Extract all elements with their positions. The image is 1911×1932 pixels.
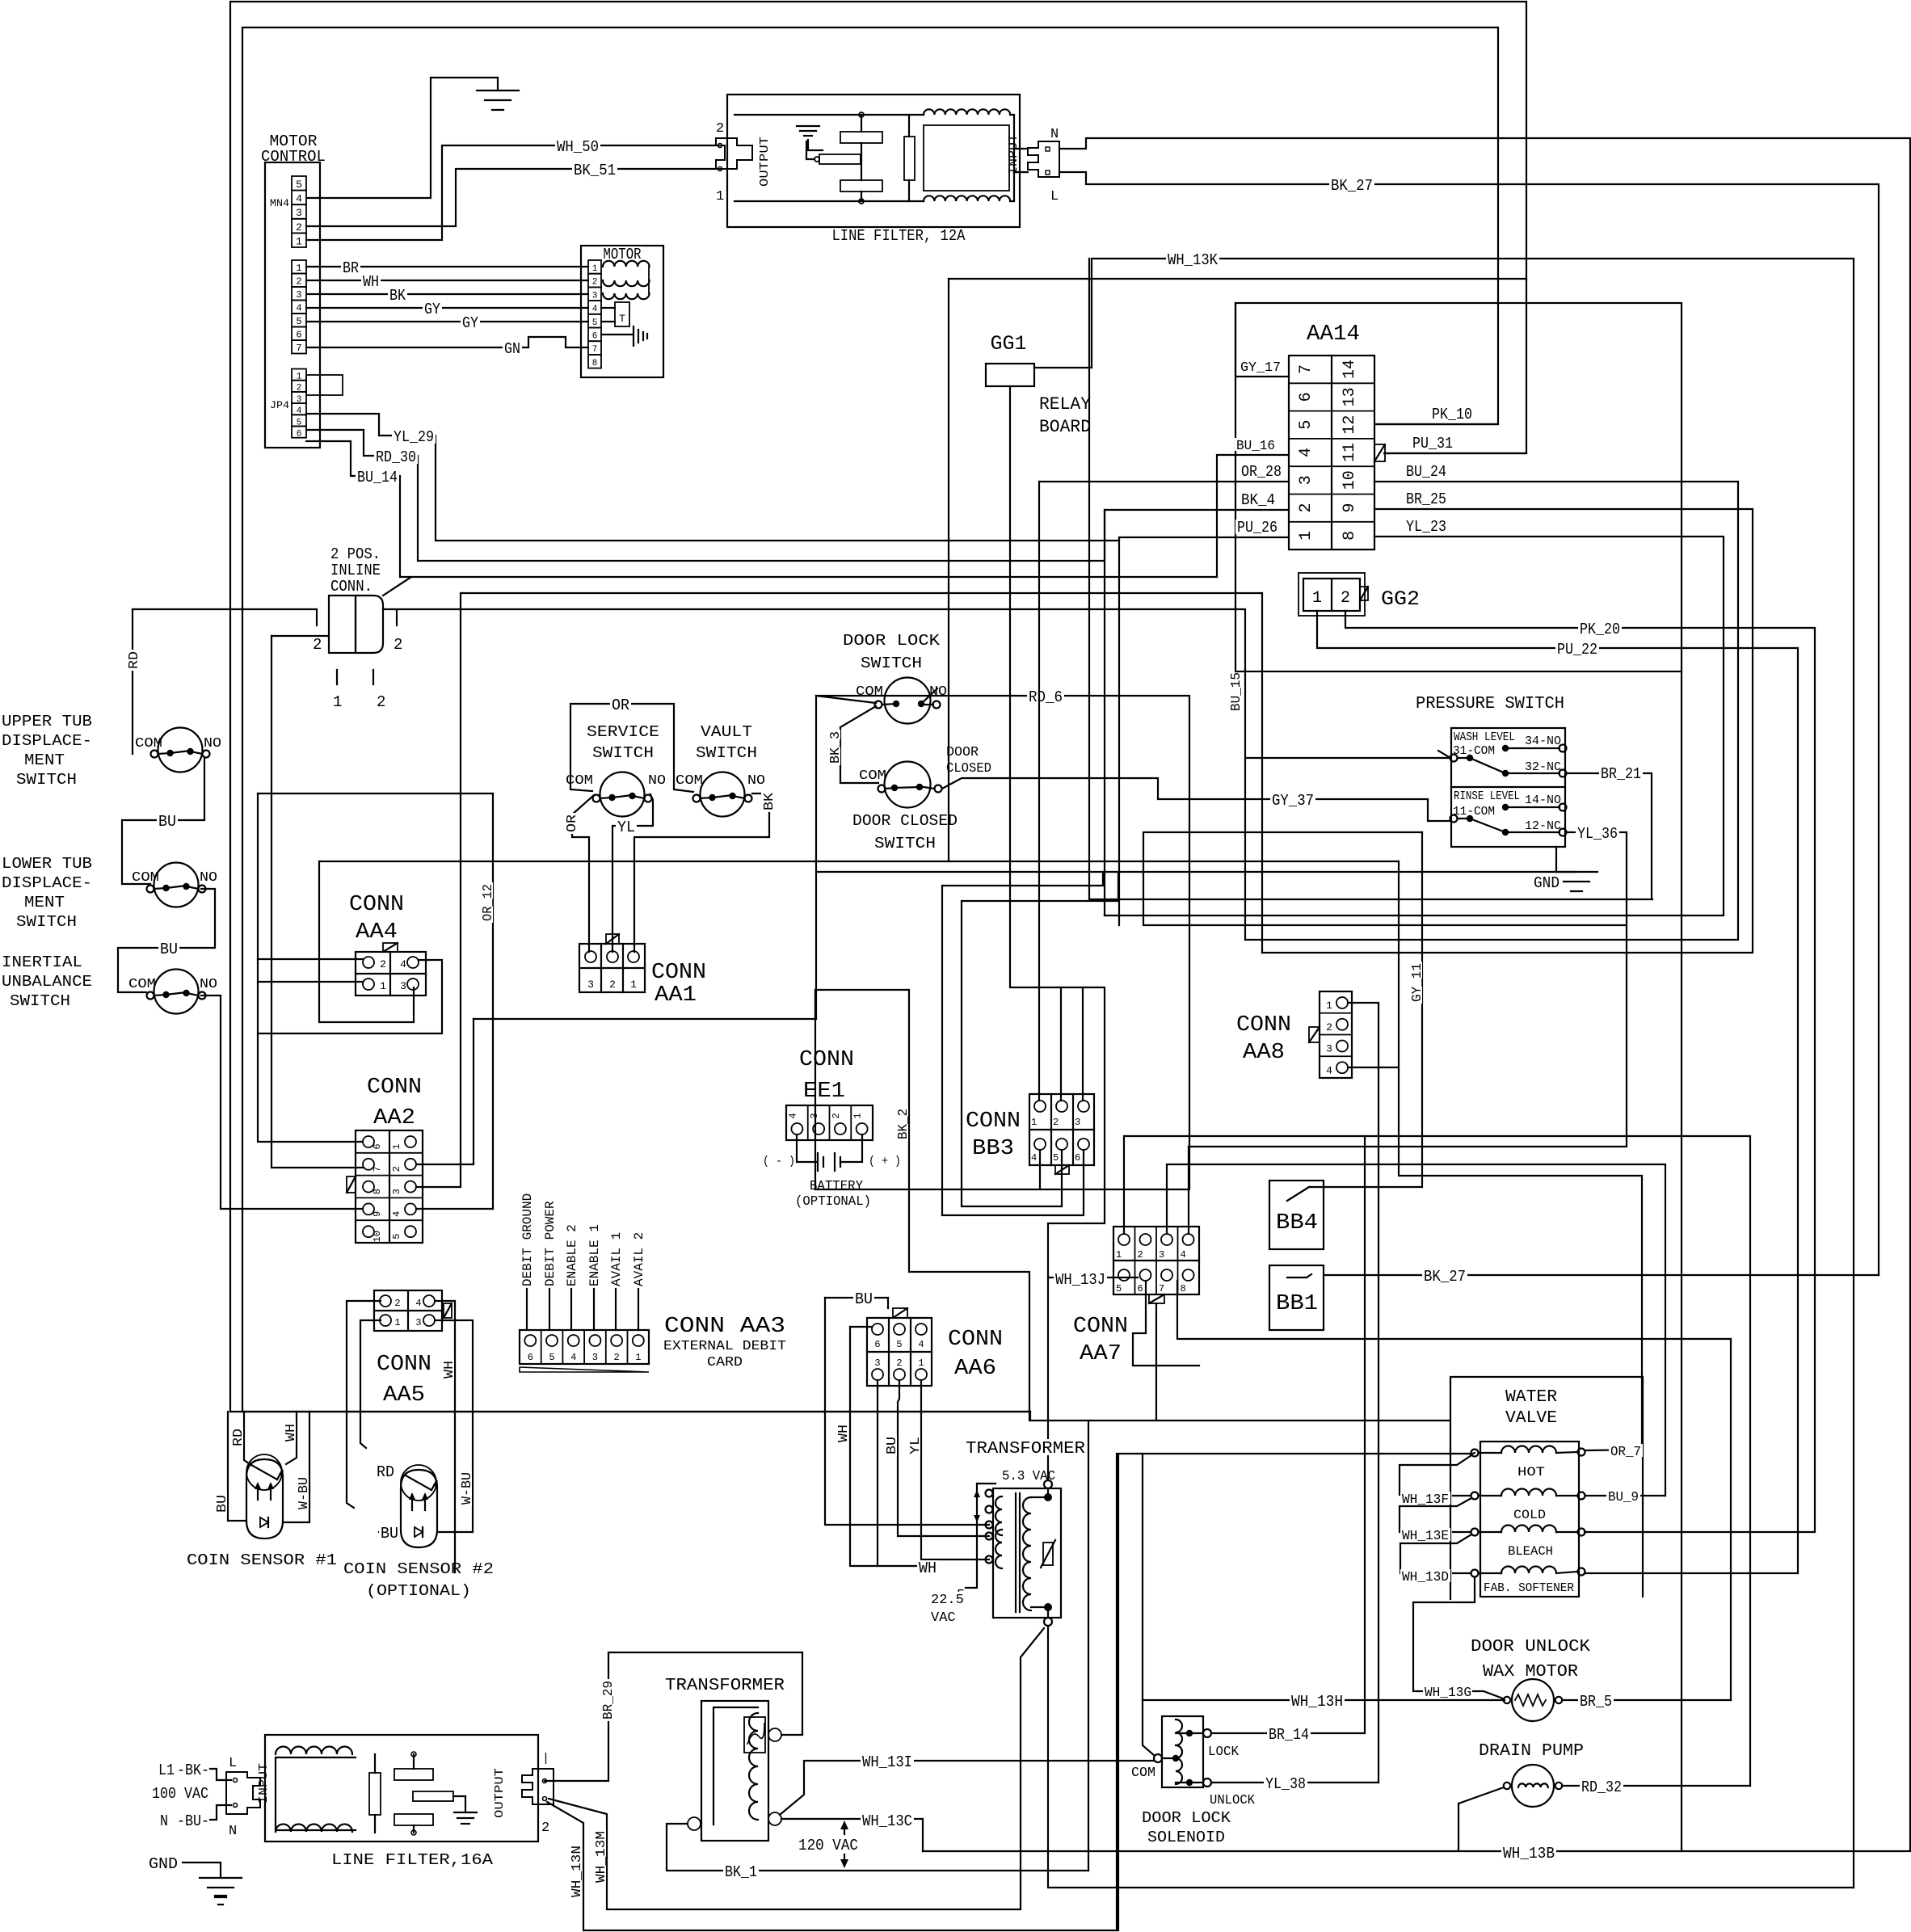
svg-text:GY_17: GY_17 — [1240, 360, 1281, 376]
label CONN AA1 — [650, 960, 708, 981]
wire BB3 pin2 pin3 feed risers — [1060, 987, 1062, 1101]
svg-text:1: 1 — [1326, 1000, 1332, 1012]
wire WH_13J — [1048, 1277, 1138, 1278]
svg-text:3: 3 — [296, 289, 301, 301]
wire BR_21 from 32-NC to bus 1113 — [1566, 773, 1652, 899]
water valve outer box — [1450, 1377, 1643, 1599]
wire bus y982 short — [258, 793, 493, 794]
svg-text:WH: WH — [442, 1361, 457, 1378]
svg-text:INLINE: INLINE — [330, 562, 381, 579]
svg-text:1: 1 — [391, 1143, 402, 1149]
wire AA6 pin1 down YL — [921, 1380, 989, 1559]
svg-text:W-BU: W-BU — [460, 1472, 475, 1505]
svg-text:VALVE: VALVE — [1505, 1409, 1557, 1428]
svg-text:DEBIT GROUND: DEBIT GROUND — [520, 1193, 535, 1286]
svg-text:NO: NO — [204, 736, 221, 751]
svg-text:WH_13D: WH_13D — [1402, 1570, 1449, 1585]
svg-text:3: 3 — [391, 1189, 402, 1194]
wire AA4 pin4 right down — [258, 960, 442, 1033]
svg-text:BR_5: BR_5 — [1580, 1693, 1612, 1711]
svg-text:1: 1 — [635, 1352, 641, 1363]
svg-text:GY_11: GY_11 — [1410, 963, 1425, 1002]
wire BR_5 to AA7 pin8 riser — [1562, 1699, 1731, 1701]
svg-text:NO: NO — [747, 773, 765, 789]
wire bottom border bus with jog — [230, 1411, 1030, 1412]
svg-text:1: 1 — [852, 1113, 864, 1118]
svg-text:EXTERNAL DEBIT: EXTERNAL DEBIT — [663, 1339, 786, 1354]
svg-text:YL_38: YL_38 — [1265, 1775, 1306, 1793]
line filter 12A inner rails — [735, 114, 924, 116]
svg-text:BU: BU — [158, 813, 176, 831]
svg-text:BB1: BB1 — [1276, 1292, 1318, 1316]
wire BU_9 — [1585, 1495, 1665, 1496]
wire WH_13N — [547, 1454, 1471, 1930]
wire PK_10 inner loop — [242, 27, 1498, 1412]
svg-text:SWITCH: SWITCH — [696, 744, 757, 762]
wire WH_13C to bus A — [781, 1819, 923, 1851]
svg-text:14-NO: 14-NO — [1525, 793, 1561, 807]
wire BU_24 to bus 1163 — [1245, 482, 1738, 940]
svg-text:(OPTIONAL): (OPTIONAL) — [366, 1582, 471, 1600]
svg-text:SWITCH: SWITCH — [861, 655, 922, 672]
line filter 16A input connector — [226, 1772, 260, 1814]
wire BK_1 to riser 1347 — [667, 1824, 1088, 1871]
svg-text:OUTPUT: OUTPUT — [758, 137, 772, 187]
svg-text:120 VAC: 120 VAC — [798, 1837, 858, 1854]
svg-text:2: 2 — [1326, 1021, 1332, 1033]
wire WH_13H — [1143, 1699, 1505, 1701]
svg-text:CONN.: CONN. — [330, 578, 373, 596]
line filter 12A output connector — [716, 138, 752, 169]
svg-text:8: 8 — [1181, 1283, 1186, 1294]
svg-text:3: 3 — [874, 1357, 880, 1369]
svg-text:COIN SENSOR #1: COIN SENSOR #1 — [187, 1551, 337, 1569]
svg-text:6: 6 — [874, 1339, 880, 1350]
svg-text:8: 8 — [1341, 531, 1359, 541]
wire PK_10 into pin12 — [1374, 423, 1498, 425]
svg-text:4: 4 — [787, 1113, 798, 1118]
svg-text:1: 1 — [380, 980, 386, 992]
wire YL_23 to bus 1133 — [1105, 537, 1724, 915]
coin sensor 2 arrows — [411, 1495, 413, 1510]
svg-text:CONN: CONN — [1073, 1315, 1128, 1339]
svg-text:BK_27: BK_27 — [1424, 1268, 1466, 1286]
wire AA7 pin7 down to border jog — [1155, 1303, 1157, 1421]
svg-text:3: 3 — [1075, 1117, 1080, 1128]
svg-text:BR_14: BR_14 — [1269, 1726, 1309, 1744]
svg-text:MENT: MENT — [24, 751, 65, 769]
labels LOCK UNLOCK COM — [1206, 1744, 1240, 1757]
wire BB3 pin5 out — [962, 872, 1118, 1206]
wire AA2 pin3 right — [416, 593, 461, 1187]
svg-text:9: 9 — [1341, 503, 1359, 512]
svg-text:TRANSFORMER: TRANSFORMER — [966, 1440, 1085, 1458]
svg-text:L1: L1 — [158, 1762, 175, 1779]
svg-text:AA8: AA8 — [1243, 1041, 1285, 1065]
svg-text:NO: NO — [200, 870, 217, 886]
upper tub displacement switch — [158, 728, 203, 772]
wire RD_32 to AA7 pin1 riser — [1562, 1785, 1750, 1787]
svg-text:WH: WH — [836, 1425, 852, 1442]
label MOTOR — [601, 246, 642, 261]
wire PU_31 outer loop — [230, 2, 1526, 1412]
svg-text:1: 1 — [1031, 1117, 1037, 1128]
svg-text:4: 4 — [1326, 1064, 1332, 1076]
svg-text:1: 1 — [1116, 1249, 1122, 1261]
svg-text:AA2: AA2 — [373, 1106, 415, 1130]
wire AA6 pin6 WH — [850, 1326, 872, 1328]
svg-text:BU: BU — [160, 941, 178, 958]
svg-text:1: 1 — [592, 264, 598, 274]
wire RD_6 line — [816, 696, 876, 1019]
svg-text:1: 1 — [918, 1357, 924, 1369]
wire GY_17 — [1235, 303, 1289, 377]
GG2 outer box — [1299, 573, 1365, 616]
wire PU_31 into pin11 — [1374, 444, 1385, 461]
wire OR_12 riser — [492, 793, 494, 1209]
svg-text:YL: YL — [617, 819, 635, 836]
svg-text:5: 5 — [592, 318, 598, 328]
svg-text:BU: BU — [215, 1495, 230, 1513]
svg-text:5: 5 — [391, 1234, 402, 1240]
transformer upper varistor — [1043, 1543, 1053, 1565]
coin sensor 2 body — [401, 1470, 437, 1547]
wire riser 1367 BK_4 — [1104, 510, 1105, 915]
line filter 16A caps — [394, 1769, 433, 1780]
line filter 12A cap2 — [840, 180, 882, 192]
svg-text:WH_50: WH_50 — [557, 138, 599, 156]
svg-text:DISPLACE-: DISPLACE- — [2, 874, 92, 892]
door closed switch — [885, 762, 931, 808]
svg-text:BK_3: BK_3 — [828, 731, 844, 764]
svg-text:BR_21: BR_21 — [1601, 765, 1641, 783]
svg-text:CARD: CARD — [707, 1355, 743, 1370]
svg-text:WH_13M: WH_13M — [594, 1831, 609, 1883]
svg-text:BK_51: BK_51 — [574, 162, 616, 179]
svg-text:OUTPUT: OUTPUT — [493, 1768, 507, 1818]
wire OR_7 — [1585, 1450, 1642, 1450]
transformer upper core — [1015, 1493, 1017, 1612]
svg-text:PRESSURE SWITCH: PRESSURE SWITCH — [1416, 695, 1564, 713]
svg-text:BR_25: BR_25 — [1406, 490, 1446, 508]
wire AA2 pin2 right — [416, 1019, 474, 1164]
wire AA7 pin1 to RD_32 riser — [1124, 1136, 1750, 1786]
svg-text:1: 1 — [333, 693, 342, 711]
svg-text:4: 4 — [918, 1339, 924, 1350]
wire BK_27 from filter L down to BB1 line — [1059, 172, 1879, 1275]
svg-text:SWITCH: SWITCH — [10, 992, 70, 1010]
svg-text:2: 2 — [394, 636, 402, 654]
wire into BB3 pin1 — [1038, 482, 1040, 1101]
svg-text:( - ): ( - ) — [763, 1155, 795, 1168]
wire BK vault NO to AA1 — [634, 793, 769, 952]
svg-text:6: 6 — [372, 1143, 383, 1149]
svg-text:BU_14: BU_14 — [357, 469, 398, 486]
svg-text:LOCK: LOCK — [1208, 1745, 1240, 1760]
svg-text:BU_15: BU_15 — [1229, 672, 1244, 711]
wire AA7 pin8 to BR_5 riser — [1177, 1281, 1731, 1700]
svg-text:GG2: GG2 — [1381, 587, 1420, 611]
wire BU lower to unbalance — [118, 889, 215, 992]
svg-text:YL_29: YL_29 — [394, 428, 434, 446]
wire BR to motor pin1 — [306, 266, 588, 267]
svg-text:GND: GND — [149, 1855, 178, 1873]
svg-text:BK_2: BK_2 — [896, 1109, 911, 1139]
svg-text:5: 5 — [1053, 1152, 1059, 1164]
svg-text:9: 9 — [372, 1211, 383, 1217]
wire y1261 link — [474, 1018, 816, 1020]
svg-text:SWITCH: SWITCH — [592, 744, 654, 762]
wire BK_27 from BB1 to riser 2325 — [1324, 1274, 1879, 1276]
svg-text:SWITCH: SWITCH — [16, 771, 77, 789]
svg-text:UPPER TUB: UPPER TUB — [2, 713, 92, 730]
svg-text:OR_28: OR_28 — [1241, 463, 1282, 481]
wire AA5 pin1 RD to coin sensor 2 — [360, 1320, 381, 1448]
svg-text:1: 1 — [1297, 531, 1315, 541]
svg-text:32-NC: 32-NC — [1525, 760, 1561, 774]
svg-text:34-NO: 34-NO — [1525, 734, 1561, 748]
wire BU_16 — [1235, 438, 1277, 451]
svg-text:DOOR: DOOR — [946, 745, 979, 760]
wire AA4 pin3 down left — [319, 861, 414, 1022]
wire OR service COM to AA1 — [572, 795, 594, 952]
line filter 12A cap1 — [840, 132, 882, 143]
svg-text:DOOR CLOSED: DOOR CLOSED — [852, 812, 958, 830]
wire WH_50 — [306, 145, 716, 240]
svg-text:BU: BU — [381, 1525, 398, 1543]
svg-text:AVAIL 1: AVAIL 1 — [609, 1232, 624, 1286]
line filter 12A outer box — [727, 95, 1020, 227]
svg-text:COM: COM — [676, 773, 703, 789]
svg-text:BK_4: BK_4 — [1241, 491, 1275, 509]
motor box — [581, 246, 663, 377]
svg-text:3: 3 — [587, 979, 594, 991]
svg-text:RD: RD — [377, 1463, 394, 1481]
svg-text:CONN: CONN — [349, 893, 404, 917]
wire bus A WH_13B — [1501, 1846, 1556, 1860]
conn BB3 hatch — [1055, 1165, 1069, 1174]
valve FAB SOFTENER coil — [1501, 1567, 1556, 1574]
svg-text:14: 14 — [1341, 360, 1359, 379]
svg-text:COM: COM — [859, 768, 886, 784]
conn EE1 connector — [786, 1105, 873, 1140]
svg-text:5: 5 — [1297, 420, 1315, 430]
line filter 12A coils — [924, 109, 1010, 115]
wire AA7 pin4 to YL_36 line — [1188, 1147, 1189, 1234]
svg-text:6: 6 — [592, 332, 598, 342]
svg-text:7: 7 — [296, 343, 301, 354]
svg-text:11-COM: 11-COM — [1453, 805, 1495, 819]
svg-text:1: 1 — [716, 189, 724, 204]
transformer lower coil — [749, 1713, 758, 1820]
svg-text:N: N — [160, 1812, 168, 1830]
svg-text:YL: YL — [908, 1437, 924, 1454]
connector JP4 pins 1-6 — [292, 369, 306, 381]
transformer lower terminals — [768, 1728, 781, 1741]
wire AA6 pin2 down BU — [898, 1380, 989, 1536]
svg-text:L: L — [1050, 189, 1059, 204]
svg-text:JP4: JP4 — [270, 399, 289, 411]
svg-text:YL_36: YL_36 — [1577, 825, 1618, 843]
svg-text:N: N — [229, 1824, 237, 1839]
transformer upper box — [993, 1488, 1061, 1618]
line filter 16A output connector — [522, 1769, 554, 1804]
wire AA8 pin1 down to YL_38 — [1348, 1003, 1379, 1783]
transformer upper primary coils — [995, 1496, 1002, 1535]
svg-text:1: 1 — [630, 979, 637, 991]
svg-text:SWITCH: SWITCH — [874, 835, 936, 852]
line filter 16A coils — [276, 1747, 352, 1755]
svg-text:RD_6: RD_6 — [1029, 688, 1063, 706]
transformer lower fuse box — [744, 1717, 765, 1753]
wire GN to motor pin7 — [306, 337, 588, 347]
svg-text:3: 3 — [415, 1317, 421, 1328]
svg-text:6: 6 — [1297, 392, 1315, 402]
conn AA7 hatch — [1149, 1294, 1164, 1303]
wire WH_13N chain to HOT — [1471, 1453, 1475, 1454]
coin sensor 2 diode — [415, 1527, 423, 1537]
svg-text:CLOSED: CLOSED — [946, 761, 991, 777]
svg-text:3: 3 — [1297, 475, 1315, 485]
svg-text:1: 1 — [296, 263, 301, 274]
svg-text:WH_13J: WH_13J — [1055, 1271, 1105, 1289]
wire bus 1113 BR_21 left — [1089, 259, 1652, 899]
wire BU_14 — [306, 441, 1289, 577]
svg-text:TRANSFORMER: TRANSFORMER — [665, 1677, 785, 1695]
valve common chain BLEACH to WH_13D — [1400, 1534, 1471, 1573]
svg-text:WH_13K: WH_13K — [1168, 251, 1219, 269]
svg-text:DEBIT POWER: DEBIT POWER — [543, 1201, 558, 1286]
wire BR_14 — [1211, 1136, 1365, 1733]
svg-text:4: 4 — [296, 193, 302, 205]
svg-text:CONN: CONN — [1236, 1013, 1291, 1038]
svg-text:2: 2 — [394, 1298, 400, 1309]
svg-text:6: 6 — [296, 330, 301, 341]
svg-text:AVAIL 2: AVAIL 2 — [632, 1232, 646, 1286]
valve BLEACH coil — [1501, 1526, 1556, 1533]
svg-text:5.3 VAC: 5.3 VAC — [1002, 1469, 1055, 1484]
wire N to input — [210, 1805, 231, 1820]
svg-text:RD_30: RD_30 — [376, 448, 416, 466]
svg-text:4: 4 — [592, 305, 598, 314]
svg-text:GN: GN — [504, 340, 520, 358]
svg-text:PK_10: PK_10 — [1432, 406, 1472, 423]
svg-text:YL_23: YL_23 — [1406, 518, 1446, 536]
inline conn pin ticks — [316, 611, 318, 625]
svg-text:DISPLACE-: DISPLACE- — [2, 732, 92, 750]
conn AA5 hatch — [444, 1303, 452, 1318]
wire BK_2 — [815, 990, 1029, 1421]
wire MN4 pin4 to chassis ground — [306, 78, 498, 198]
wire L1 to input — [210, 1769, 231, 1780]
svg-text:MENT: MENT — [24, 894, 65, 911]
wire N to right edge and down to bus A — [923, 138, 1910, 1851]
svg-text:3: 3 — [592, 291, 598, 301]
svg-text:T: T — [619, 313, 625, 325]
svg-text:VAC: VAC — [931, 1610, 956, 1626]
conn AA14 table — [1289, 356, 1374, 549]
line filter 16A inner boxes — [276, 1757, 356, 1830]
svg-text:INPUT: INPUT — [257, 1763, 271, 1804]
wire AA2 pin4 right — [416, 1208, 493, 1210]
connector MN pins 1-7 — [292, 260, 306, 274]
svg-text:BU: BU — [855, 1290, 873, 1308]
valve COLD coil — [1501, 1489, 1556, 1496]
svg-text:LINE FILTER, 12A: LINE FILTER, 12A — [832, 227, 966, 245]
svg-text:INPUT: INPUT — [1007, 134, 1021, 175]
door lock switch — [885, 678, 931, 724]
svg-text:-BK-: -BK- — [177, 1762, 209, 1779]
svg-text:2: 2 — [377, 693, 385, 711]
connector MN4 pins 5-1 — [292, 176, 306, 191]
svg-text:HOT: HOT — [1517, 1465, 1545, 1480]
svg-text:UNBALANCE: UNBALANCE — [2, 973, 92, 991]
svg-text:4: 4 — [570, 1352, 576, 1363]
svg-text:2: 2 — [380, 958, 386, 970]
svg-text:L: L — [229, 1756, 237, 1771]
svg-text:CONTROL: CONTROL — [517, 1111, 677, 1157]
svg-text:12: 12 — [1341, 415, 1359, 435]
conn AA2 hatch — [347, 1176, 356, 1193]
svg-text:31-COM: 31-COM — [1453, 744, 1495, 758]
svg-text:3: 3 — [1159, 1249, 1164, 1261]
svg-text:AA5: AA5 — [383, 1383, 425, 1408]
BB1 box — [1269, 1265, 1324, 1330]
wire BK_51 — [306, 169, 716, 226]
svg-text:WH: WH — [363, 273, 379, 291]
svg-text:2: 2 — [1341, 589, 1350, 608]
wire OR_28 — [1039, 481, 1289, 482]
coin sensor 1 body — [246, 1459, 283, 1538]
svg-text:|: | — [542, 1752, 549, 1766]
wire YL service NO to AA1 — [612, 794, 653, 952]
wire AA7 pin6 down — [1133, 1281, 1199, 1366]
svg-text:COIN SENSOR #2: COIN SENSOR #2 — [343, 1560, 494, 1578]
conn AA8 hatch — [1309, 1027, 1320, 1042]
conn AA1 relay hatch — [606, 934, 619, 944]
svg-text:GY: GY — [424, 301, 441, 318]
svg-text:N: N — [1050, 127, 1059, 142]
svg-text:COLD: COLD — [1513, 1508, 1546, 1522]
svg-text:12-NC: 12-NC — [1525, 819, 1561, 833]
svg-text:5: 5 — [896, 1339, 902, 1350]
svg-text:WH_13G: WH_13G — [1425, 1686, 1471, 1701]
svg-text:3: 3 — [296, 207, 302, 219]
wire 31-COM diagonal — [1438, 751, 1450, 758]
wire box left of BB3 — [949, 278, 1526, 280]
transformer lower core — [713, 1707, 758, 1825]
conn AA6 hatch — [893, 1308, 907, 1318]
line filter 12A vertical resistor — [904, 137, 915, 180]
svg-text:7: 7 — [592, 345, 598, 355]
svg-text:W-BU: W-BU — [297, 1477, 312, 1509]
door lock solenoid terminals — [1203, 1729, 1211, 1737]
svg-text:3: 3 — [1326, 1043, 1332, 1055]
wire W-BU coin2 — [435, 1320, 473, 1532]
svg-text:OR_12: OR_12 — [481, 884, 496, 921]
conn BB3 connector — [1029, 1094, 1094, 1165]
transformer lower box — [701, 1701, 768, 1841]
BB4 box — [1269, 1181, 1324, 1249]
conn AA4 connector — [356, 952, 426, 995]
svg-text:BK: BK — [389, 287, 406, 305]
svg-text:COM: COM — [1131, 1766, 1155, 1781]
svg-text:CONN: CONN — [367, 1075, 422, 1100]
svg-text:PU_26: PU_26 — [1237, 519, 1278, 537]
wire WH_13M — [549, 1628, 1044, 1909]
wire GY_37 label — [1270, 793, 1315, 807]
svg-text:SOLENOID: SOLENOID — [1147, 1829, 1225, 1846]
